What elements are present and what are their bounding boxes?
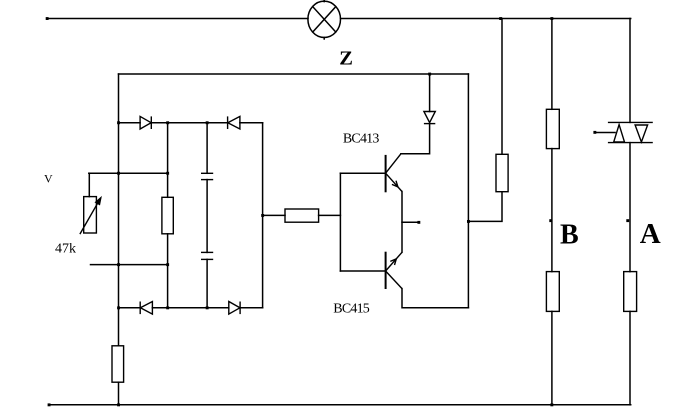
wire: emitter stub [402,221,418,223]
wire: emitters link (Q1 to Q2) [401,192,403,253]
wire: net A upper drop [629,19,631,123]
junction: lower row / R1 branch [166,263,169,266]
diode D4 (points right) [229,302,240,315]
capacitor C2 [201,252,213,259]
terminal marker on net B [549,219,552,222]
wire: bottom diode row segment c [240,307,263,309]
svg-text:A: A [640,218,661,250]
wire: net B middle [551,149,553,272]
wire: middle block right edge vertical [467,74,469,308]
terminal marker on net A [626,219,629,222]
wire: mid-left row [89,172,168,174]
wire: R4 branch drop [501,19,503,155]
wire: lower-left row [91,264,168,266]
wire: D5 anode drop [429,74,431,112]
resistor R1 [162,197,173,234]
wire: D5 cathode to Q1 collector [401,124,430,154]
wire: net B to bottom rail [551,311,553,404]
wire: Q2 collector drop [402,289,468,308]
wire: Q1 base [340,172,385,174]
svg-text:B: B [560,219,579,250]
wire: bottom rail [49,404,631,406]
wire: net B upper drop [551,19,553,110]
triac (bidirectional device, net A) [608,122,653,142]
svg-text:Z: Z [339,47,353,69]
resistor R7 (net A lower) [624,272,637,312]
junction: top rail to net B [550,17,553,20]
svg-text:BC415: BC415 [333,302,369,317]
wire: right vertical of diode bridge [262,123,264,308]
wire: bridge output to R3 [263,214,285,216]
junction: lower row / left vertical [117,263,120,266]
svg-text:BC413: BC413 [343,132,379,147]
wire: R1 branch upper [167,123,169,198]
junction: top row / R1 branch [166,121,169,124]
junction: middle block right edge [467,220,470,223]
wire: base bus vertical [339,173,341,271]
wire: capacitor branch middle [206,180,208,253]
lamp Z (circle with cross) [308,0,341,39]
junction: bridge output [261,214,264,217]
gate terminal dot [593,131,596,134]
wire: below R4 to middle block [468,192,502,222]
wire: top diode row segment a [119,122,141,124]
wire: below R2 [118,382,120,405]
svg-text:47k: 47k [55,241,76,256]
wire: net A to bottom rail [629,311,631,404]
gate lead of triac [595,132,615,134]
wire: middle block top rail [119,73,469,75]
diode D3 (points left) [140,302,152,315]
wire: Q2 base [340,270,385,272]
junction: mid row / R1 branch [166,172,169,175]
diode D1 (points right) [140,116,151,129]
junction: top rail to R4 branch [499,17,502,20]
wire: capacitor branch lower [206,259,208,307]
wire: net A middle [629,143,631,272]
capacitor C1 [201,173,213,179]
wire: left vertical upper [118,74,120,346]
wire: bottom diode row segment a [119,307,141,309]
resistor R5 (net B upper) [546,109,559,148]
endpoint dot: bottom rail left end [48,403,51,406]
junction: bottom row / capacitor branch [206,306,209,309]
junction: top row / capacitor branch [206,121,209,124]
wire: capacitor branch upper [206,123,208,174]
junction: top row / left vertical [117,121,120,124]
junction: bottom row / left vertical [117,306,120,309]
terminal marker: emitter stub end [417,221,420,224]
transistor Q1 BC413 [386,154,402,193]
junction: bottom rail / left branch [117,403,120,406]
wire: top diode row segment b [151,122,227,124]
rheostat RV1 [80,197,101,235]
wire: top supply rail, left of lamp [47,18,308,20]
resistor R6 (net B lower) [546,272,559,312]
wire: top diode row segment c [240,122,263,124]
wire: bottom diode row segment b [152,307,228,309]
resistor R3 (horizontal) [285,209,319,222]
resistor R4 [496,154,508,191]
junction: bottom row / R1 branch [166,306,169,309]
endpoint dot: top rail left end [46,17,49,20]
wire: R3 to base bus [319,214,341,216]
resistor R2 (left lower) [112,346,124,382]
diode D5 (points down) [424,112,435,124]
wire: R1 branch lower [167,234,169,308]
diode D2 (points left) [228,116,240,129]
junction: mid row / left vertical [117,172,120,175]
junction: bottom rail / net B [550,403,553,406]
junction: top rail / diode D5 branch [428,73,431,76]
wire: top supply rail, right of lamp [341,18,631,20]
transistor Q2 BC415 [386,252,402,289]
svg-text:V: V [44,171,53,185]
wire: rheostat stub [88,173,90,196]
